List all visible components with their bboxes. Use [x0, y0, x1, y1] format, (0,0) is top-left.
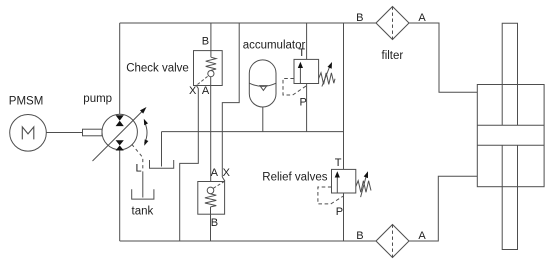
relief valve RV1 spring adjust arrow line: [322, 65, 330, 87]
relief valve RV1 spring adjust arrow head: [328, 62, 333, 69]
svg-text:pump: pump: [83, 93, 112, 105]
wire A line from CV1 to CV2: [210, 86, 212, 182]
pump variable displacement arrow line: [93, 111, 144, 162]
wire pilot X drain of CV1 to bottom bus with jog: [180, 89, 199, 242]
pump top bowtie triangles: [116, 115, 124, 126]
pump arc arrowhead top: [144, 119, 148, 125]
relief valve RV1 spring: [319, 73, 335, 85]
relief valve RV1 body square: [294, 59, 319, 83]
check valve CV1 spring: [206, 57, 216, 70]
relief valve RV2 internal arrow line: [336, 175, 338, 193]
wire relief valve RV1 port P to pressure bus: [306, 84, 308, 132]
svg-text:X: X: [189, 85, 197, 97]
shaft line motor to coupling: [46, 132, 82, 134]
check valve CV2 box: [198, 182, 225, 215]
svg-text:L: L: [136, 163, 142, 175]
filter F2 dashed element: [392, 225, 394, 258]
svg-text:T: T: [335, 157, 342, 169]
svg-text:A: A: [211, 167, 219, 179]
svg-text:filter: filter: [382, 50, 404, 62]
pump case drain dashed line: [132, 144, 143, 171]
wire top bus right of filter to cylinder rod-side elbow: [409, 23, 477, 92]
tank T2 symbol: [132, 189, 154, 199]
svg-text:B: B: [211, 217, 218, 229]
svg-text:Relief valves: Relief valves: [262, 172, 327, 184]
pump variable arrow head: [140, 107, 147, 114]
shaft coupling rectangle: [83, 129, 103, 136]
wire tank T1 feed from pressure bus: [161, 132, 163, 167]
filter F1 top diamond: [376, 7, 409, 40]
wire relief valve RV2 port T drop from top bus: [343, 23, 345, 169]
wire left column upper (pump pressure port to top bus): [119, 23, 121, 114]
check valve CV1 box: [194, 51, 223, 86]
wire pilot X of CV2 from top bus with jog: [222, 23, 239, 177]
wire left column lower (pump suction port to bottom bus): [119, 150, 121, 241]
check valve CV2 ball: [207, 187, 214, 194]
svg-text:P: P: [336, 206, 343, 218]
svg-text:B: B: [356, 12, 363, 24]
cylinder rod upper: [502, 23, 517, 125]
relief valve RV2 spring: [356, 181, 371, 193]
relief valve RV2 pilot dashed loop: [318, 187, 332, 204]
wire relief valve RV2 port P to bottom bus: [343, 193, 345, 241]
cylinder body: [477, 85, 544, 187]
pump swivel arc arrow: [144, 122, 147, 144]
wire check valve CV2 port B to bottom bus: [210, 214, 212, 241]
relief valve RV2 spring adjust arrow line: [361, 175, 367, 198]
cylinder piston upper line: [477, 124, 544, 126]
check valve CV2 pilot tick above box: [222, 177, 225, 181]
accumulator gas triangle: [260, 86, 267, 91]
accumulator separator arc: [249, 83, 276, 86]
pump drain solid line into tank T2: [142, 172, 144, 198]
pump arc arrowhead bottom: [144, 139, 148, 145]
accumulator body capsule: [249, 60, 276, 107]
svg-text:A: A: [418, 12, 426, 24]
wire bottom filter to cylinder cap-side elbow: [409, 176, 477, 241]
svg-text:X: X: [223, 167, 231, 179]
check valve CV1 ball-to-A stub: [210, 77, 212, 86]
relief valve RV2 spring adjust arrow head: [364, 171, 368, 178]
wire check valve CV1 port B drop from top bus: [210, 23, 212, 57]
motor M letter: [22, 127, 34, 139]
svg-text:A: A: [418, 230, 426, 242]
wire top bus (B line) from left column to top filter: [120, 22, 376, 24]
relief valve RV2 body square: [332, 169, 356, 193]
wire bottom bus (B return) from left column to bottom filter: [120, 240, 376, 242]
pump P1 circle: [102, 114, 137, 149]
check valve CV2 spring: [205, 194, 216, 207]
svg-text:B: B: [356, 230, 363, 242]
check valve CV2 pilot dashed diagonal: [213, 182, 224, 189]
svg-text:Check valve: Check valve: [126, 63, 189, 75]
filter F2 bottom diamond: [376, 225, 409, 258]
wire pressure bus (pump outlet manifold): [162, 131, 344, 133]
check valve CV1 ball: [208, 71, 214, 77]
svg-text:accumulator: accumulator: [243, 39, 306, 51]
svg-text:tank: tank: [132, 206, 154, 218]
wire relief valve RV1 port T drop from top bus: [306, 23, 308, 59]
relief valve RV2 pilot dashed diagonal: [331, 196, 344, 204]
relief valve RV1 internal arrow line: [299, 66, 301, 84]
svg-text:T: T: [298, 47, 305, 59]
cylinder piston lower line: [477, 144, 544, 146]
relief valve RV2 internal arrow head: [335, 171, 340, 177]
cylinder rod lower: [502, 145, 517, 249]
relief valve RV1 internal arrow head: [298, 62, 303, 68]
svg-text:B: B: [202, 36, 209, 48]
check valve CV1 pilot tick below box: [196, 85, 198, 89]
svg-text:A: A: [202, 85, 210, 97]
motor U1 PMSM circle: [10, 115, 47, 152]
relief valve RV1 pilot dashed loop: [283, 79, 294, 96]
filter F1 dashed element: [392, 7, 394, 40]
check valve CV2 spring-to-B stub: [210, 207, 212, 214]
svg-text:P: P: [300, 97, 307, 109]
svg-text:PMSM: PMSM: [9, 95, 44, 107]
relief valve RV1 pilot dashed diagonal: [293, 86, 307, 95]
wire accumulator stem: [262, 107, 264, 132]
pump bottom bowtie triangles: [116, 140, 124, 150]
check valve CV1 pilot dashed diagonal: [197, 76, 208, 85]
tank T1 symbol: [150, 160, 174, 168]
